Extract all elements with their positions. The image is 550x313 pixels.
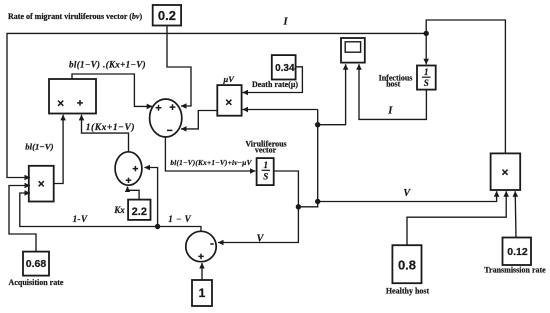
scope block — [341, 38, 365, 63]
node V junction lower — [296, 204, 301, 209]
wire V into P2 — [243, 109, 318, 111]
wire 2.2 to sum S2 — [128, 187, 140, 200]
svg-text:bl(1−V): bl(1−V) — [25, 141, 53, 151]
constant block 0.8 — [392, 245, 421, 283]
constant block 0.68 — [23, 252, 49, 276]
wire P1 output to sum S1 — [72, 74, 152, 106]
wire S3 output to 1-V line — [158, 227, 201, 232]
wire S2 output to P1 input 2 — [82, 115, 129, 152]
wire U2 output I to scope input 2 — [359, 64, 426, 119]
node scope branch junction — [315, 122, 320, 127]
integrator block U1 1/S viruliferous vector — [257, 158, 274, 185]
wire P3 output to P1 input 1 — [54, 115, 63, 184]
svg-text:0.68: 0.68 — [26, 258, 47, 270]
integrator block U2 1/S infectious host — [417, 66, 436, 90]
svg-text:0.8: 0.8 — [398, 258, 416, 273]
svg-text:μV: μV — [222, 74, 235, 84]
wire product P4 output up over to junction — [426, 20, 505, 153]
node 1-V junction — [155, 224, 160, 229]
sum ellipse S1 — [150, 99, 182, 137]
wire 0.68 to P3 input 2 — [9, 186, 36, 252]
svg-text:Rate of migrant viruliferous v: Rate of migrant viruliferous vector (bv) — [8, 12, 142, 21]
constant block 2.2 — [128, 200, 150, 220]
wire 0.12 to P4 — [514, 191, 517, 237]
wire junction to integrator U2 — [425, 33, 427, 64]
svg-text:1 − V: 1 − V — [168, 214, 191, 224]
svg-text:1: 1 — [424, 67, 429, 77]
wire 1-V up to sum S2 — [144, 168, 157, 227]
svg-text:I: I — [387, 106, 393, 117]
wire S1 output to integrator U1 — [165, 137, 255, 171]
svg-text:Kx: Kx — [113, 205, 125, 215]
svg-text:Acquisition rate: Acquisition rate — [9, 278, 64, 287]
constant block 0.2 — [153, 5, 181, 26]
wire V to scope input 1 — [318, 64, 346, 125]
sum ellipse S2 — [115, 152, 142, 185]
svg-text:Healthy host: Healthy host — [386, 287, 430, 296]
svg-text:Death rate(μ): Death rate(μ) — [252, 80, 298, 89]
svg-text:0.34: 0.34 — [275, 63, 295, 74]
product block P2 mu V — [217, 85, 241, 116]
wire 0.8 to P4 — [407, 191, 506, 245]
svg-text:0.2: 0.2 — [158, 8, 176, 23]
wire V up to P2 and scope — [317, 110, 319, 202]
wire P2 output to sum S1 minus — [181, 111, 217, 129]
wire V jog to main V line — [298, 202, 317, 207]
svg-text:S: S — [263, 171, 268, 181]
svg-text:1(Kx+1−V): 1(Kx+1−V) — [86, 122, 135, 133]
product block P1 x + — [49, 79, 96, 114]
node I feedback junction — [424, 31, 429, 36]
constant block 1 — [192, 280, 212, 306]
node V line junction — [315, 199, 320, 204]
svg-text:1: 1 — [264, 160, 269, 170]
constant block 0.34 — [272, 55, 296, 79]
wire V line to product P4 — [318, 191, 497, 201]
wire 1 to S3 — [201, 263, 203, 280]
svg-text:0.12: 0.12 — [507, 246, 528, 258]
svg-text:host: host — [386, 80, 401, 89]
svg-text:V: V — [403, 188, 411, 199]
wire 1-V line to P3 input 3 — [20, 193, 158, 227]
wire 0.2 to sum S1 — [167, 26, 191, 107]
wire top I line to left edge down to product P3 — [7, 33, 426, 177]
svg-text:bl(1−V)(Kx+1−V)+iv−μV: bl(1−V)(Kx+1−V)+iv−μV — [170, 158, 252, 167]
svg-text:1: 1 — [199, 286, 206, 300]
svg-text:Transmission rate: Transmission rate — [484, 266, 546, 275]
svg-text:S: S — [424, 78, 429, 88]
svg-text:2.2: 2.2 — [132, 206, 147, 218]
svg-text:I: I — [282, 16, 288, 27]
product block P4 right — [491, 153, 521, 190]
svg-text:1-V: 1-V — [73, 214, 88, 224]
wire U1 output V down — [218, 171, 298, 243]
svg-text:bl(1−V) .(Kx+1−V): bl(1−V) .(Kx+1−V) — [69, 60, 146, 70]
sum circle S3 — [186, 231, 216, 261]
svg-text:vector: vector — [255, 146, 277, 155]
constant block 0.12 — [503, 238, 532, 266]
product block P3 left — [29, 166, 54, 202]
wire 0.34 to P2 — [243, 67, 303, 93]
